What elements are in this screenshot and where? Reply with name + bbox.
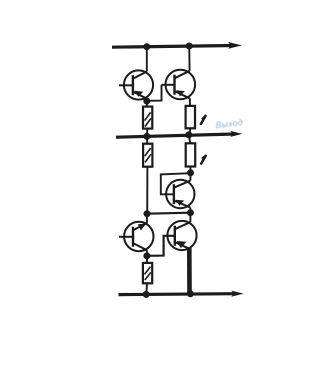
node: Q1 emitter junction — [143, 98, 150, 105]
svg-text:Выход: Выход — [215, 117, 243, 130]
transistor Q4 (bottom-left, NPN emitter up) — [119, 222, 154, 251]
node: left connector junction — [144, 210, 151, 217]
top supply rail — [112, 46, 234, 48]
wire: top rail to Q1 collector — [146, 47, 148, 72]
wire: Q4 collector node to Q5 base (L-shape) — [147, 236, 175, 256]
node: below R4 — [187, 169, 194, 176]
transistor Q3 (middle, PNP) — [166, 180, 194, 208]
label 1 for R2 — [201, 116, 206, 124]
resistor R5 (hatched) — [143, 263, 152, 283]
wire: Q5 emitter thick lead to bottom rail — [187, 248, 192, 295]
node: middle rail right junction — [185, 131, 192, 138]
bottom rail arrowhead — [231, 291, 243, 297]
label Выход (output), light blue handwriting — [215, 117, 243, 130]
wire: R4 to node below — [189, 167, 191, 173]
wire: Q3 emitter down to node — [189, 208, 191, 213]
wire: node down to Q4 emitter — [146, 214, 148, 223]
wire: node down to Q3 collector — [189, 173, 191, 181]
wire: Q2 emitter down to R2 — [189, 98, 191, 106]
middle rail arrowhead — [230, 131, 242, 137]
wire: Q4 collector down to node — [146, 250, 148, 256]
bottom rail — [119, 292, 237, 296]
wire: middle rail to R4 — [189, 135, 190, 143]
wire: Q4 collector node to R5 — [146, 256, 148, 263]
node: bottom rail right junction — [187, 290, 194, 297]
top rail arrowhead — [228, 42, 242, 49]
wire: middle rail to R3 — [146, 136, 148, 143]
wire: Q1 emitter node to Q2 base (L-shape) — [147, 85, 162, 101]
resistor R3 (hatched) — [143, 144, 152, 167]
transistor Q5 (bottom-right, PNP) — [167, 221, 196, 250]
wire: node to R1 and R1 to middle rail — [146, 101, 148, 107]
wire: horizontal connector between columns — [147, 213, 191, 214]
middle rail — [116, 134, 235, 137]
resistor R2 (plain, value 1) — [186, 106, 195, 128]
resistor R4 (plain, value 1) — [186, 143, 196, 166]
node: top rail left junction — [143, 43, 150, 50]
wire: top rail to Q2 collector — [188, 46, 190, 71]
wire: R2 to middle rail — [189, 128, 191, 135]
node: top rail right junction — [186, 43, 193, 50]
wire: node down to Q5 collector, from junction above — [189, 213, 191, 222]
node: right connector junction — [187, 209, 194, 216]
node: bottom rail left junction — [143, 291, 150, 298]
node: middle rail left junction — [143, 133, 150, 140]
wire: R5 to bottom rail — [145, 283, 148, 294]
transistor Q1 (top-left, PNP) — [119, 70, 153, 99]
resistor R1 (hatched) — [143, 107, 152, 129]
node: Q4 collector junction — [143, 252, 150, 259]
transistor Q2 (top-right, PNP) — [162, 70, 196, 100]
wire: R3 down to lower node — [146, 167, 148, 214]
wire: Q1 emitter to node — [146, 99, 148, 101]
label 1 for R4 — [201, 156, 206, 164]
wire: Q3 base feedback loop — [161, 173, 191, 194]
